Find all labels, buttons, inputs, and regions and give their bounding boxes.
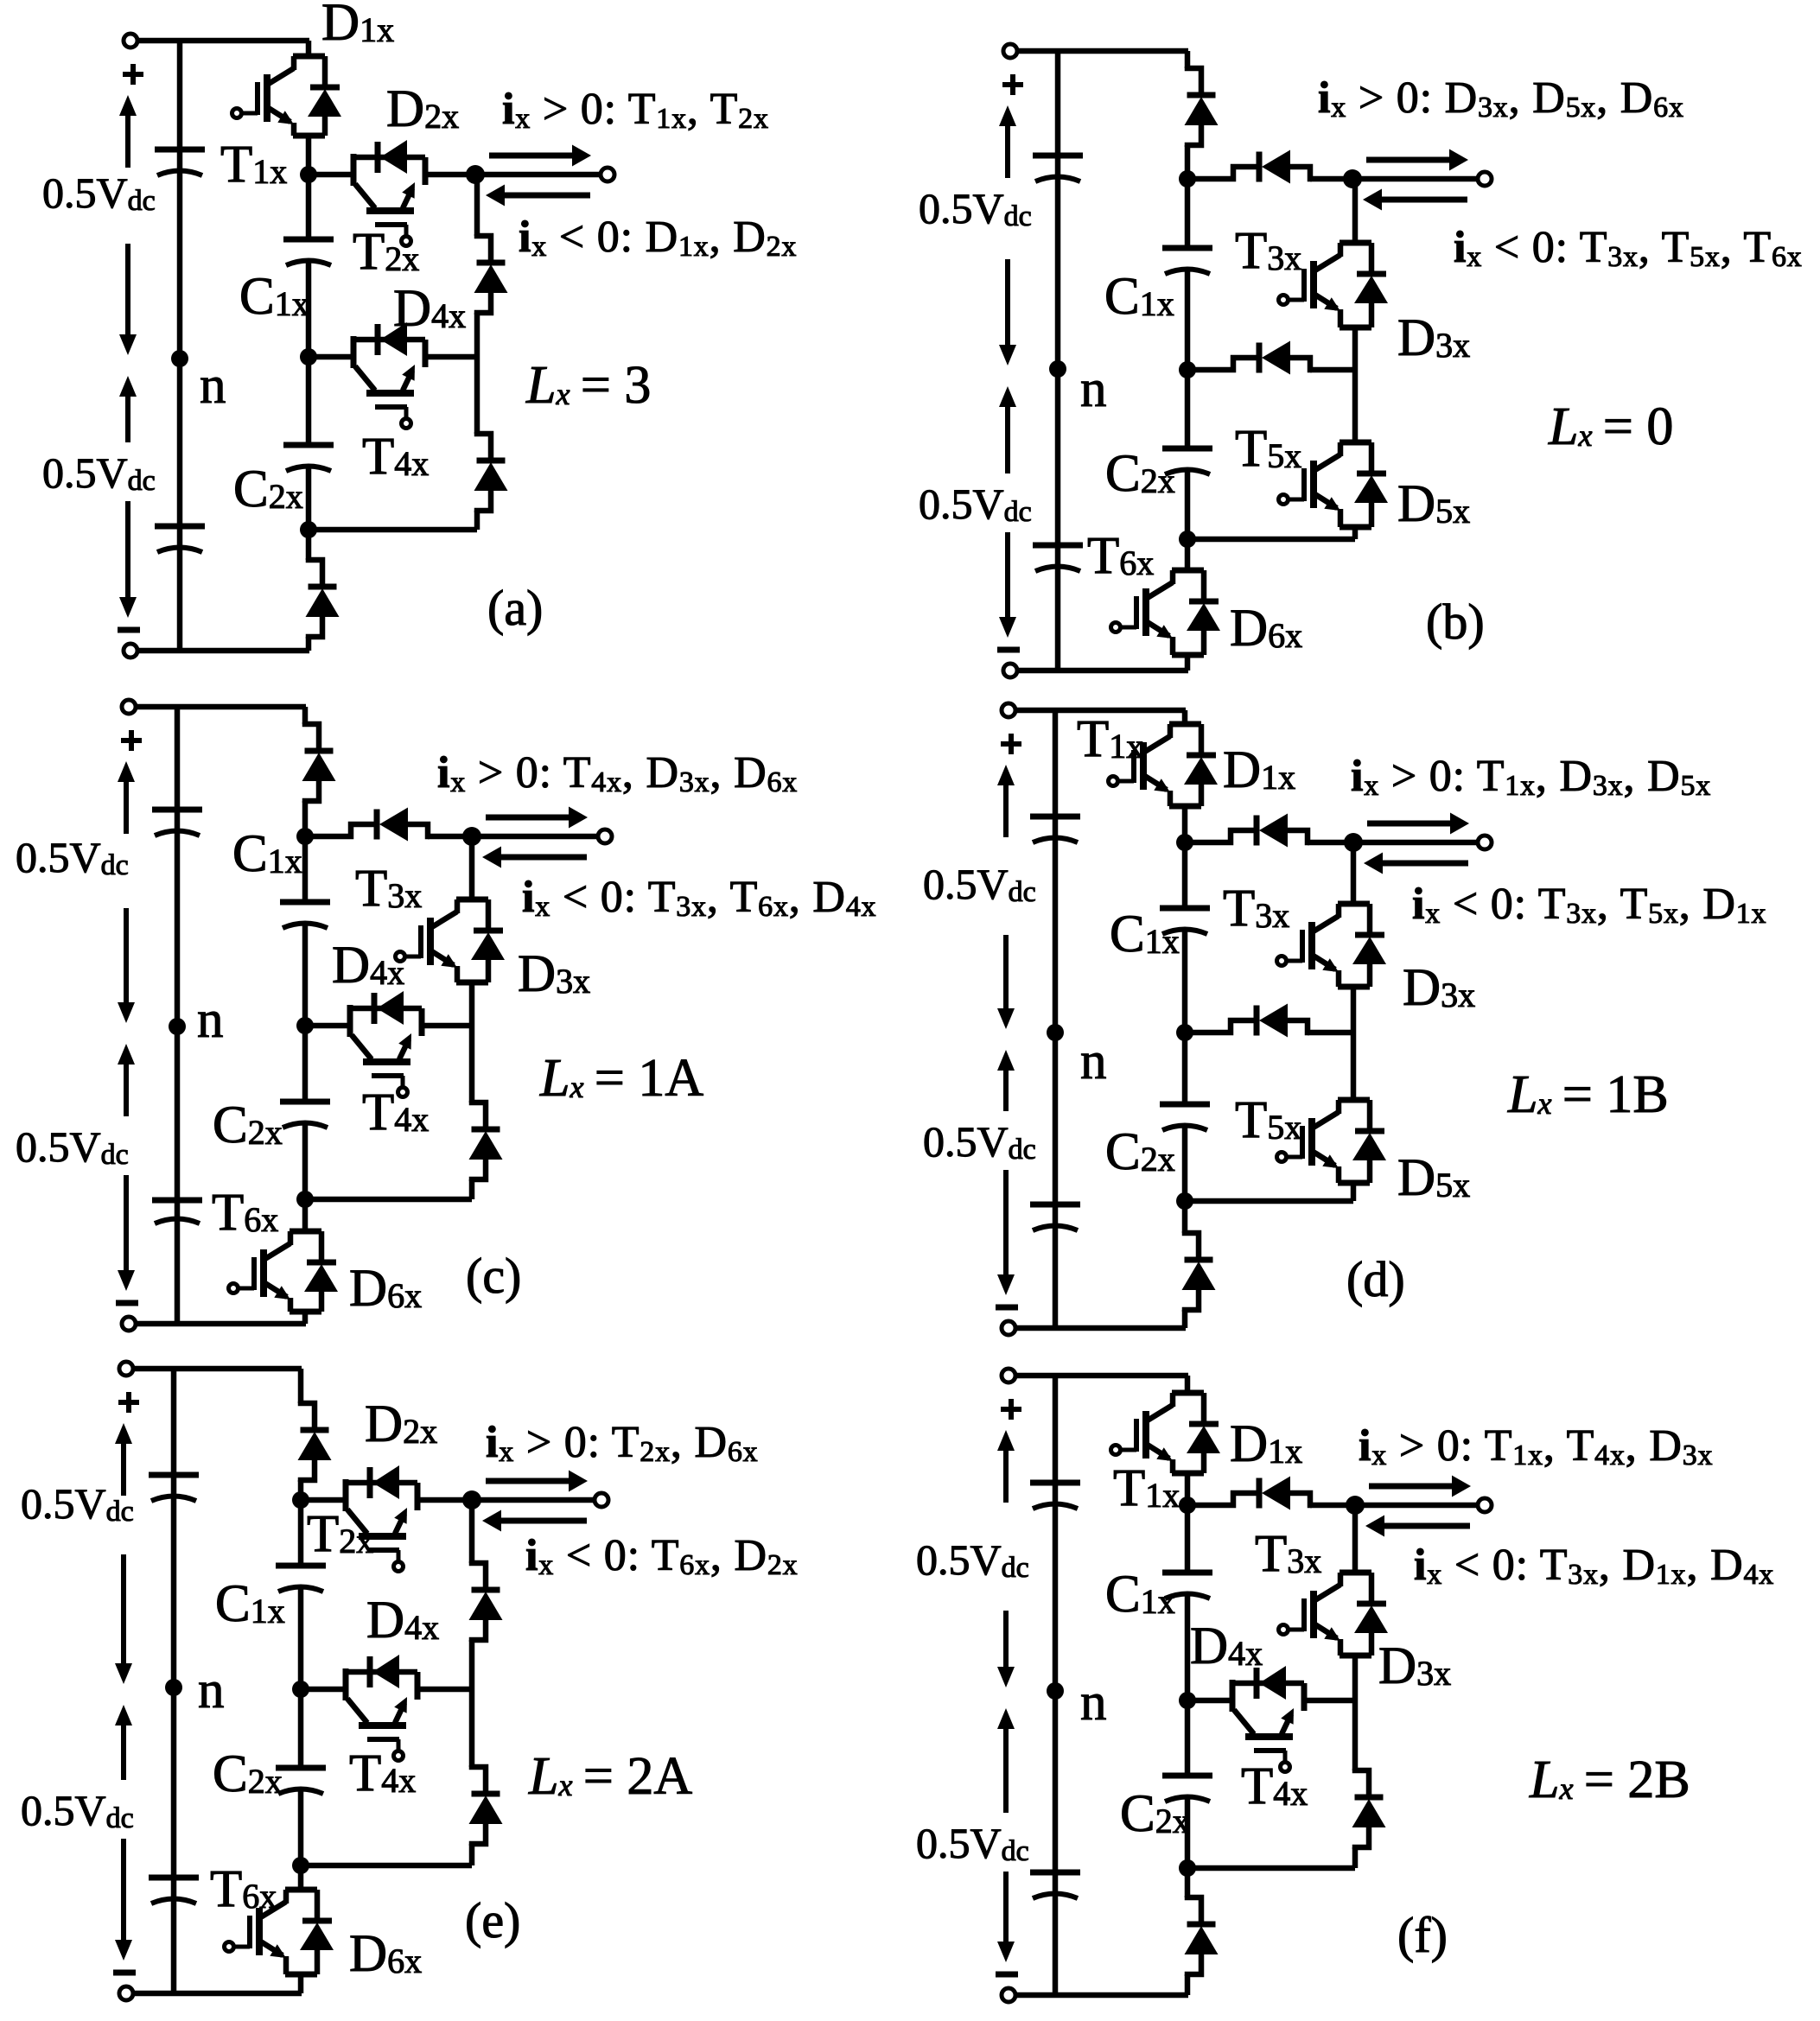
(b) diode (branch 1)	[1186, 150, 1312, 184]
(d) wire leg top stub	[1182, 710, 1188, 842]
(a) label condition ix>0	[502, 85, 769, 135]
(a) transistor T1x	[232, 56, 326, 136]
(f) label 0.5Vdc (lower)	[916, 1819, 1029, 1867]
(a) diode D2x	[351, 140, 425, 174]
(b) label n	[1080, 360, 1107, 418]
(f) diode D3x	[1354, 1573, 1388, 1656]
(f) diode (branch 1)	[1186, 1477, 1312, 1510]
(d) voltage arrow up (lower)	[997, 1050, 1015, 1111]
svg-text:(f): (f)	[1397, 1907, 1448, 1963]
(f) voltage arrow up (upper)	[997, 1430, 1015, 1503]
(f) voltage arrow up (lower)	[997, 1708, 1015, 1813]
(a) wire leg bottom stub	[306, 530, 312, 651]
svg-text:Lx​ = 2A: Lx​ = 2A	[528, 1747, 692, 1806]
(d) capacitor C2x	[1160, 1104, 1210, 1130]
(d) wire DC bus rail	[1053, 710, 1059, 1328]
(a) wire leg top stub	[306, 41, 312, 175]
(e) label C1x	[215, 1575, 285, 1633]
(d) wire leg bottom stub	[1182, 1201, 1188, 1328]
svg-text:n: n	[1080, 360, 1107, 418]
(b) capacitor C1x	[1162, 248, 1212, 274]
(a) label C2x	[233, 461, 303, 518]
(d) wire top rail	[1015, 708, 1186, 714]
svg-text:Lx​ = 2B: Lx​ = 2B	[1529, 1751, 1690, 1809]
(c) diode D6x	[304, 1231, 338, 1312]
svg-text:Lx​ = 1A: Lx​ = 1A	[539, 1049, 703, 1108]
(c) diode (top of leg)	[302, 722, 336, 803]
(e) label 0.5Vdc (lower)	[21, 1786, 134, 1834]
(a) diode (clamp lower)	[474, 432, 508, 512]
(e) wire leg C2x-C	[298, 1790, 304, 1865]
(d) terminal DC+	[1002, 703, 1015, 717]
(c) diode D3x	[471, 899, 505, 982]
(c) terminal output	[598, 829, 612, 843]
(a) wire DC bus rail	[177, 41, 183, 651]
(d) plus sign	[1001, 734, 1021, 754]
(c) label D6x	[349, 1260, 422, 1318]
(e) voltage arrow down (upper)	[115, 1554, 132, 1684]
(e) label D6x	[349, 1925, 422, 1983]
(e) label subfigure (e)	[465, 1892, 520, 1948]
(e) label condition ix<0	[525, 1531, 798, 1581]
(c) node output	[462, 827, 481, 846]
(f) node junction C	[1179, 1859, 1196, 1877]
(f) wire leg top stub	[1185, 1376, 1191, 1505]
(a) wire top rail	[137, 38, 309, 44]
(c) label T6x	[212, 1184, 278, 1242]
(b) capacitor DC bus upper	[1033, 156, 1083, 181]
(c) label 0.5Vdc (upper)	[16, 833, 129, 881]
(b) label Lx value	[1548, 397, 1673, 456]
(f) voltage arrow down (lower)	[997, 1872, 1015, 1962]
(e) capacitor DC bus lower	[149, 1878, 199, 1903]
(e) node output	[462, 1490, 481, 1509]
(c) voltage arrow down (upper)	[118, 908, 135, 1023]
(a) label D4x	[393, 280, 466, 338]
(e) label D2x	[365, 1395, 437, 1453]
(f) transistor T3x	[1279, 1573, 1372, 1656]
(b) wire branch1 right	[1310, 176, 1352, 182]
(c) current arrow ix>0	[486, 807, 588, 829]
(c) label condition ix>0	[437, 748, 798, 798]
(c) wire leg bottom stub	[302, 1199, 309, 1324]
(a) wire leg C1x-B	[306, 262, 312, 357]
(a) node n	[171, 350, 188, 367]
(b) wire branch2 right	[1310, 367, 1355, 373]
(e) diode D2x	[343, 1465, 417, 1499]
(e) terminal DC-	[119, 1986, 133, 2000]
(b) wire leg A-C1x	[1185, 179, 1191, 248]
(f) label T1x	[1113, 1459, 1180, 1517]
(b) voltage arrow down (upper)	[999, 259, 1016, 365]
(c) wire rail lower	[305, 1026, 472, 1199]
(a) terminal output	[601, 168, 614, 181]
svg-text:(e): (e)	[465, 1892, 520, 1948]
(d) label subfigure (d)	[1346, 1251, 1405, 1307]
(b) node junction A	[1179, 170, 1196, 187]
(b) voltage arrow up (upper)	[999, 105, 1016, 178]
(d) label 0.5Vdc (upper)	[923, 860, 1036, 908]
(b) capacitor DC bus lower	[1033, 545, 1083, 571]
(d) diode (branch 2)	[1183, 1004, 1309, 1038]
(d) voltage arrow up (upper)	[997, 765, 1015, 837]
svg-text:Lx​ = 3: Lx​ = 3	[525, 356, 651, 415]
(d) minus sign	[996, 1305, 1018, 1311]
(e) wire DC bus rail	[171, 1369, 177, 1993]
(a) node junction C	[300, 521, 317, 538]
(b) label 0.5Vdc (lower)	[919, 480, 1032, 528]
(a) capacitor C2x	[283, 445, 334, 471]
(b) wire leg C1x-B	[1185, 270, 1191, 370]
(c) wire leg top stub	[302, 707, 309, 836]
(c) voltage arrow up (lower)	[118, 1044, 135, 1116]
(f) capacitor DC bus lower	[1030, 1872, 1080, 1898]
(e) capacitor DC bus upper	[149, 1475, 199, 1501]
svg-text:n: n	[198, 1662, 225, 1719]
(d) diode (branch 1)	[1183, 814, 1309, 848]
(a) diode D4x	[351, 322, 425, 356]
(d) transistor T1x	[1109, 724, 1202, 806]
(b) plus sign	[1002, 74, 1023, 95]
(c) label T3x	[355, 860, 422, 918]
(e) transistor T2x	[346, 1479, 417, 1572]
(d) transistor T3x	[1277, 904, 1371, 987]
(c) wire top rail	[136, 704, 306, 710]
(d) label C1x	[1110, 906, 1180, 963]
(c) transistor T4x	[350, 1005, 422, 1097]
(d) diode D1x	[1184, 724, 1218, 806]
(f) label subfigure (f)	[1397, 1907, 1448, 1963]
svg-text:ix​ < 0: T6x​, D2x​: ix​ < 0: T6x​, D2x​	[525, 1531, 798, 1581]
(e) voltage arrow up (lower)	[115, 1705, 132, 1780]
(a) capacitor DC bus lower	[155, 526, 205, 552]
(c) voltage arrow up (upper)	[118, 761, 135, 834]
(d) capacitor C1x	[1160, 908, 1210, 934]
(e) node junction B	[292, 1681, 309, 1698]
(b) diode D3x	[1354, 243, 1388, 327]
(c) minus sign	[116, 1300, 138, 1306]
(d) label T3x	[1223, 880, 1289, 937]
(b) terminal output	[1478, 172, 1492, 186]
(d) label C2x	[1105, 1123, 1175, 1181]
(b) diode D6x	[1187, 570, 1220, 655]
(e) node n	[165, 1679, 182, 1696]
(b) label 0.5Vdc (upper)	[919, 184, 1032, 232]
(a) capacitor C1x	[283, 239, 334, 265]
(c) capacitor DC bus lower	[152, 1200, 202, 1223]
(c) wire rail upper	[469, 836, 475, 1026]
(f) wire branch2 left	[1187, 1698, 1232, 1704]
svg-text:Lx​ = 1B: Lx​ = 1B	[1507, 1065, 1669, 1124]
(c) voltage arrow down (lower)	[118, 1175, 135, 1291]
(f) label 0.5Vdc (upper)	[916, 1535, 1029, 1584]
(e) label T2x	[307, 1505, 373, 1563]
(a) terminal DC+	[124, 34, 137, 48]
(a) diode (bottom of leg)	[306, 558, 340, 639]
(e) wire branch2 right	[417, 1687, 472, 1693]
(d) capacitor DC bus lower	[1030, 1204, 1080, 1230]
(c) plus sign	[121, 730, 142, 751]
(a) transistor T2x	[353, 154, 425, 246]
(c) diode (branch 1)	[303, 808, 430, 842]
(a) label C1x	[239, 268, 309, 326]
(e) terminal output	[595, 1493, 608, 1507]
(d) label T5x	[1235, 1091, 1301, 1149]
(c) label 0.5Vdc (lower)	[16, 1122, 129, 1171]
(e) wire leg C1x-B	[298, 1588, 304, 1689]
(e) node junction A	[292, 1491, 309, 1509]
(a) label T2x	[353, 223, 419, 281]
(f) node junction A	[1179, 1497, 1196, 1514]
(b) terminal DC+	[1003, 44, 1017, 58]
(e) label condition ix>0	[486, 1418, 758, 1468]
(e) wire leg A-C1x	[298, 1500, 304, 1566]
(d) wire bottom rail	[1015, 1325, 1186, 1331]
(d) diode D3x	[1352, 904, 1386, 987]
(a) label D1x	[321, 0, 394, 52]
(b) diode (branch 2)	[1186, 341, 1312, 375]
(e) capacitor C1x	[276, 1566, 326, 1592]
svg-text:Lx​ = 0: Lx​ = 0	[1548, 397, 1673, 456]
(e) diode D6x	[300, 1890, 334, 1974]
(b) node n	[1049, 360, 1066, 378]
(d) label Lx value	[1507, 1065, 1669, 1124]
(a) node junction B	[300, 348, 317, 365]
(c) node junction A	[296, 828, 314, 845]
(d) wire leg B-C2x	[1182, 1033, 1188, 1104]
svg-text:(c): (c)	[466, 1248, 521, 1304]
(e) wire rail lower	[301, 1689, 472, 1865]
(f) diode (clamp lower)	[1352, 1769, 1386, 1849]
(f) capacitor C2x	[1162, 1776, 1212, 1802]
(a) label condition ix<0	[519, 213, 797, 263]
(d) node junction A	[1176, 834, 1193, 851]
(c) wire branch2 left	[305, 1023, 350, 1029]
(c) capacitor C2x	[280, 1102, 330, 1128]
(b) voltage arrow down (lower)	[999, 532, 1016, 638]
(b) diode D5x	[1354, 442, 1388, 527]
(b) wire top rail	[1017, 48, 1188, 54]
(c) label condition ix<0	[522, 873, 876, 923]
(a) wire branch2 left	[309, 354, 353, 360]
(d) current arrow ix>0	[1367, 813, 1469, 835]
(f) label T3x	[1255, 1525, 1321, 1583]
(c) capacitor C1x	[280, 902, 330, 928]
(d) label D5x	[1397, 1149, 1470, 1207]
(a) plus sign	[123, 64, 143, 85]
(d) terminal output	[1478, 836, 1492, 849]
(b) wire leg C2x-C	[1185, 471, 1191, 539]
svg-text:ix​ < 0: D1x​, D2x​: ix​ < 0: D1x​, D2x​	[519, 213, 797, 263]
(f) voltage arrow down (upper)	[997, 1611, 1015, 1687]
(f) wire rail upper	[1352, 1505, 1359, 1700]
(a) terminal DC-	[124, 644, 137, 658]
(c) wire bottom rail	[136, 1321, 306, 1327]
(f) wire rail lower	[1187, 1700, 1355, 1868]
(b) node junction C	[1179, 531, 1196, 548]
(f) wire top rail	[1015, 1373, 1188, 1379]
(f) wire branch2 right	[1304, 1698, 1355, 1704]
(a) wire rail upper	[474, 175, 480, 357]
(c) label n	[197, 991, 224, 1049]
(d) label condition ix>0	[1351, 752, 1711, 802]
(d) wire leg A-C1x	[1182, 842, 1188, 908]
(a) voltage arrow up (upper)	[119, 95, 137, 168]
(f) wire leg C2x-C	[1185, 1798, 1191, 1868]
svg-text:(a): (a)	[487, 580, 543, 636]
(a) transistor T4x	[353, 336, 425, 429]
(d) wire leg C2x-C	[1182, 1127, 1188, 1201]
(f) wire DC bus rail	[1053, 1376, 1059, 1995]
(c) terminal DC-	[122, 1317, 136, 1331]
(f) diode D4x	[1230, 1666, 1304, 1700]
(c) label subfigure (c)	[466, 1248, 521, 1304]
(d) label 0.5Vdc (lower)	[923, 1117, 1036, 1166]
(b) capacitor C2x	[1162, 448, 1212, 474]
(c) wire leg C1x-B	[302, 925, 309, 1026]
(e) diode (clamp lower)	[469, 1765, 503, 1846]
(b) label T3x	[1235, 222, 1301, 280]
(a) current arrow ix<0	[486, 185, 590, 207]
(e) capacitor C2x	[276, 1768, 326, 1794]
(a) label T1x	[220, 136, 287, 194]
(f) capacitor C1x	[1162, 1573, 1212, 1598]
(b) wire leg bottom stub	[1185, 539, 1191, 670]
(e) wire leg B-C2x	[298, 1689, 304, 1768]
(b) label subfigure (b)	[1426, 594, 1485, 650]
(b) label C1x	[1104, 268, 1174, 326]
(b) transistor T3x	[1279, 243, 1372, 327]
(c) label D3x	[518, 945, 590, 1003]
(f) current arrow ix<0	[1365, 1516, 1470, 1537]
(e) wire branch1 right	[417, 1497, 472, 1503]
(f) terminal output	[1478, 1498, 1492, 1512]
(f) wire leg B-C2x	[1185, 1700, 1191, 1776]
(c) wire output	[472, 834, 598, 840]
(f) wire leg C1x-B	[1185, 1595, 1191, 1700]
(f) wire branch1 right	[1310, 1503, 1355, 1509]
(d) current arrow ix<0	[1364, 853, 1468, 874]
(a) wire rail lower	[309, 357, 477, 530]
(e) diode D4x	[343, 1655, 417, 1688]
(e) wire bottom rail	[133, 1991, 302, 1997]
(d) label n	[1080, 1033, 1107, 1090]
(c) transistor T6x	[229, 1231, 322, 1312]
(d) node n	[1047, 1024, 1064, 1041]
(e) label 0.5Vdc (upper)	[21, 1479, 134, 1528]
(d) transistor T5x	[1277, 1100, 1371, 1183]
(c) wire leg B-C2x	[302, 1026, 309, 1102]
(d) diode (bottom of leg)	[1182, 1231, 1216, 1312]
(d) wire output	[1353, 840, 1478, 846]
(a) wire leg A-C1x	[306, 175, 312, 239]
(c) label C1x	[232, 825, 302, 883]
(f) terminal DC-	[1002, 1988, 1015, 2002]
(b) label condition ix>0	[1318, 73, 1684, 124]
(a) label 0.5Vdc (upper)	[42, 168, 156, 217]
(f) label D4x	[1190, 1617, 1263, 1675]
(b) wire output	[1352, 176, 1478, 182]
(a) label T4x	[362, 428, 429, 486]
(c) wire branch1 right	[428, 834, 472, 840]
(b) label C2x	[1105, 445, 1175, 503]
(e) node junction C	[292, 1857, 309, 1874]
(c) label D4x	[332, 937, 404, 995]
(e) wire leg bottom stub	[298, 1865, 304, 1993]
(a) label 0.5Vdc (lower)	[42, 448, 156, 497]
(d) label D3x	[1403, 959, 1475, 1017]
(d) label D1x	[1223, 741, 1295, 799]
(f) node n	[1047, 1682, 1064, 1700]
(a) label subfigure (a)	[487, 580, 543, 636]
(e) wire branch2 left	[301, 1687, 346, 1693]
(b) minus sign	[997, 647, 1020, 653]
(d) terminal DC-	[1002, 1321, 1015, 1335]
(c) node junction C	[296, 1191, 314, 1208]
(d) capacitor DC bus upper	[1030, 817, 1080, 842]
(b) wire rail lower	[1187, 370, 1355, 539]
(f) label condition ix<0	[1414, 1541, 1774, 1591]
(e) terminal DC+	[119, 1362, 133, 1376]
(d) label condition ix<0	[1412, 880, 1766, 930]
(a) wire output	[475, 172, 601, 178]
(c) capacitor DC bus upper	[152, 810, 202, 836]
(c) label Lx value	[539, 1049, 703, 1108]
(b) wire leg B-C2x	[1185, 370, 1191, 448]
(b) transistor T5x	[1279, 442, 1372, 527]
(c) wire leg A-C1x	[302, 836, 309, 902]
(d) wire rail lower	[1185, 1033, 1353, 1201]
(d) wire branch1 right	[1308, 840, 1353, 846]
(a) node output	[466, 165, 485, 184]
(e) plus sign	[118, 1392, 139, 1413]
(b) label D6x	[1230, 600, 1302, 658]
(a) wire branch2 right	[425, 354, 477, 360]
(f) terminal DC+	[1002, 1369, 1015, 1382]
(c) wire leg C2x-C	[302, 1124, 309, 1199]
(b) wire leg top stub	[1185, 51, 1191, 179]
svg-text:n: n	[197, 991, 224, 1049]
(a) wire branch1 left	[309, 172, 353, 178]
(f) minus sign	[996, 1972, 1018, 1978]
(c) node junction B	[296, 1017, 314, 1034]
(e) wire top rail	[133, 1366, 302, 1372]
(d) node junction C	[1176, 1192, 1193, 1210]
(a) label Lx value	[525, 356, 651, 415]
(e) wire rail upper	[469, 1500, 475, 1689]
(e) label T4x	[349, 1745, 416, 1802]
(b) label D5x	[1397, 475, 1470, 533]
(f) capacitor DC bus upper	[1030, 1483, 1080, 1509]
(d) wire rail upper	[1351, 842, 1357, 1033]
(e) label D4x	[366, 1592, 439, 1649]
(b) label T6x	[1087, 527, 1154, 585]
(b) terminal DC-	[1003, 664, 1017, 677]
(f) transistor T1x	[1111, 1393, 1205, 1473]
(f) label C1x	[1105, 1566, 1175, 1624]
(a) wire leg B-C2x	[306, 357, 312, 445]
(d) voltage arrow down (lower)	[997, 1170, 1015, 1295]
(f) node output	[1346, 1496, 1365, 1515]
(b) diode (top of leg)	[1185, 67, 1219, 147]
(c) label T4x	[362, 1084, 429, 1141]
(f) label condition ix>0	[1359, 1421, 1713, 1471]
(a) voltage arrow down (lower)	[119, 501, 137, 618]
svg-text:ix​ > 0: T2x​, D6x​: ix​ > 0: T2x​, D6x​	[486, 1418, 758, 1468]
(b) voltage arrow up (lower)	[999, 386, 1016, 473]
(e) wire branch1 left	[301, 1497, 346, 1503]
(f) plus sign	[1001, 1399, 1021, 1420]
